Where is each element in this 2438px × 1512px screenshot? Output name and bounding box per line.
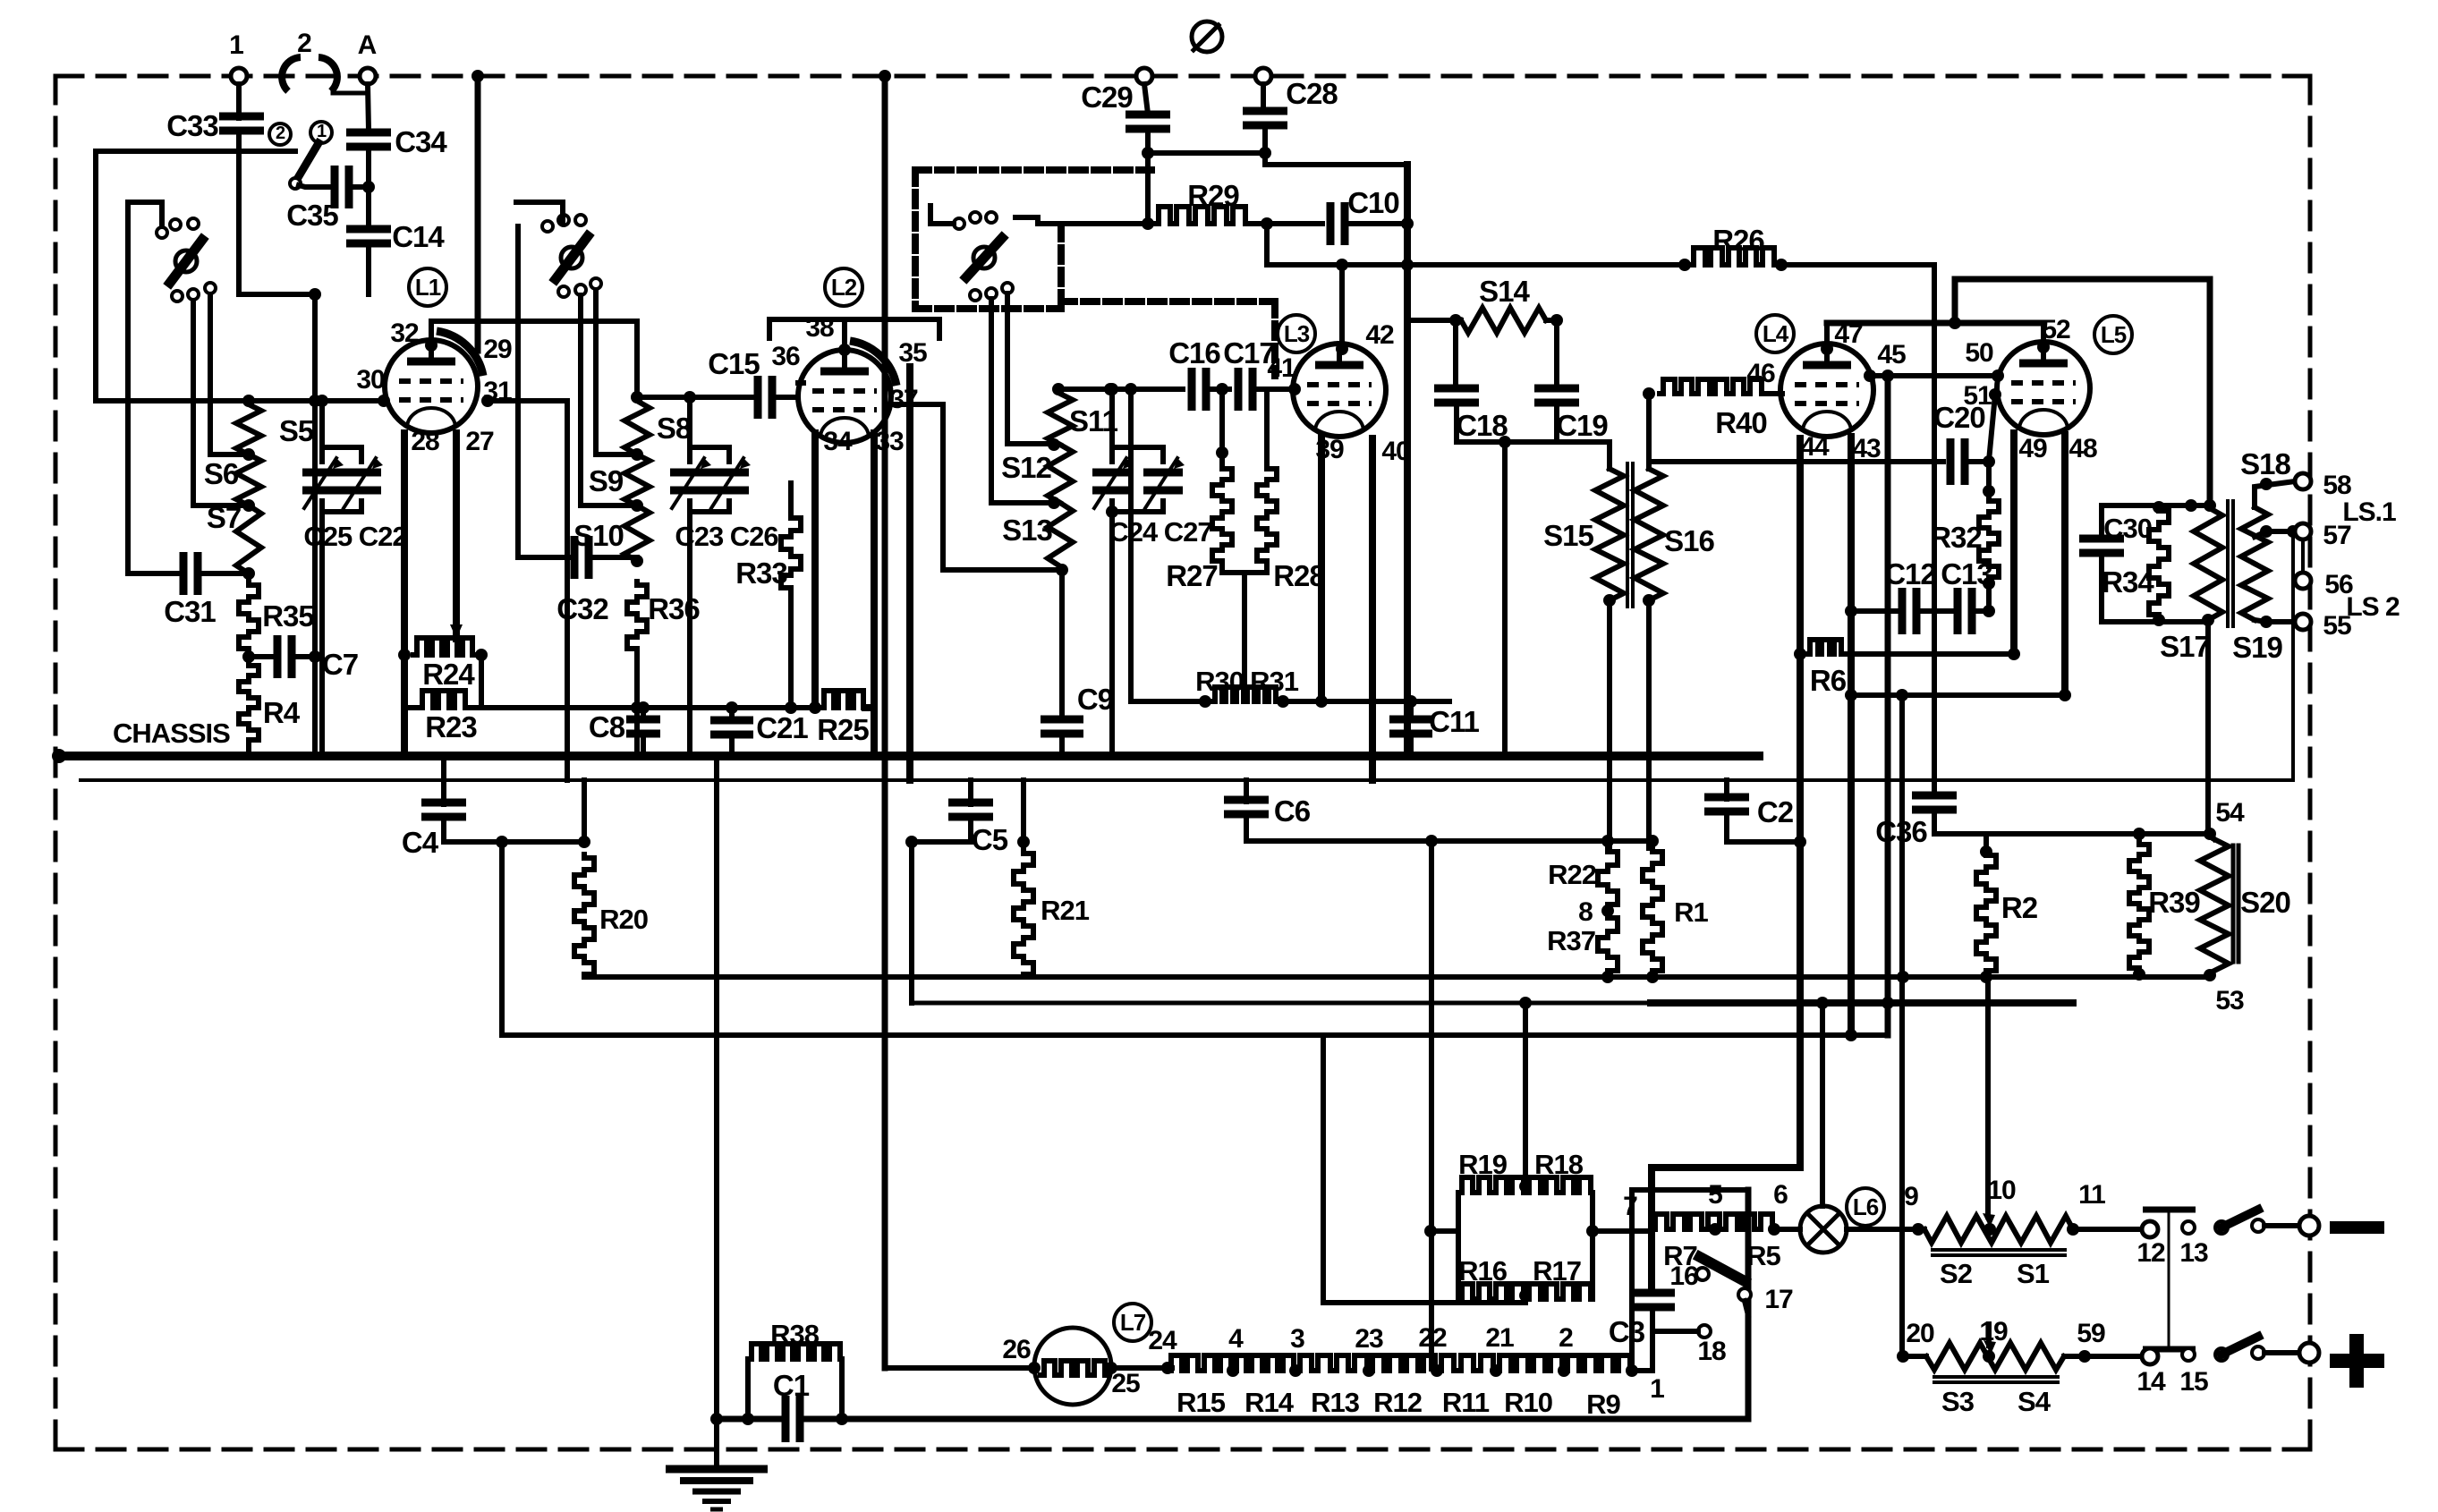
wire R27 R28 bracket <box>1222 564 1267 573</box>
svg-text:45: 45 <box>1877 340 1906 370</box>
wire switch2 left drop <box>515 226 521 557</box>
node R30 left <box>1199 695 1211 708</box>
wire screen bus y940 <box>1246 838 1652 844</box>
pot S2S1 base <box>1933 1248 2065 1252</box>
wire R36 to chassis <box>634 651 640 756</box>
node 3 <box>1289 1364 1302 1377</box>
node S5-S6 tap <box>242 448 255 461</box>
node below C35 <box>309 288 321 301</box>
wire B+ vertical <box>1404 165 1411 756</box>
node transformer top <box>2204 499 2216 512</box>
node C10 right <box>1401 217 1414 230</box>
svg-text:S4: S4 <box>2018 1386 2051 1417</box>
wire x1019 drop <box>909 842 914 1003</box>
svg-text:7: 7 <box>1623 1192 1637 1221</box>
wire R30 drop <box>1128 389 1134 701</box>
wire C6 bottom <box>1244 813 1249 841</box>
svg-text:15: 15 <box>2179 1367 2208 1397</box>
svg-text:R6: R6 <box>1810 664 1847 697</box>
terminal 57 <box>2295 523 2311 539</box>
svg-text:22: 22 <box>1418 1323 1447 1353</box>
variable capacitor C25 <box>302 469 342 477</box>
node C11 top <box>1405 695 1417 708</box>
wire HT vertical to L7 <box>882 76 888 1368</box>
oscillator switch contacts <box>954 218 964 229</box>
wire C30 bottom <box>2099 552 2104 622</box>
wire L3 anode riser <box>1339 265 1345 349</box>
node y940 R1 <box>1646 835 1659 847</box>
svg-text:30: 30 <box>356 365 385 395</box>
capacitor C34 <box>346 129 391 137</box>
wire R33 top stub <box>788 483 794 514</box>
node x2563 <box>2287 525 2299 538</box>
svg-text:R27: R27 <box>1166 559 1218 592</box>
node 6 <box>1768 1223 1780 1236</box>
aerial switch arm <box>299 143 319 176</box>
svg-text:C4: C4 <box>402 826 439 859</box>
node S11-S12 tap <box>1048 438 1060 451</box>
capacitor C6 <box>1224 796 1269 804</box>
node L7 right <box>1105 1362 1117 1374</box>
svg-text:C1: C1 <box>773 1369 810 1402</box>
svg-text:32: 32 <box>390 319 419 348</box>
node pin 41 <box>1288 383 1301 395</box>
svg-text:27: 27 <box>465 427 494 456</box>
wire tap S9/S10 link <box>581 295 637 505</box>
svg-text:29: 29 <box>483 335 512 364</box>
svg-text:C11: C11 <box>1429 705 1479 738</box>
wire S8 to C15 <box>637 395 759 400</box>
resistor R36 <box>627 582 647 651</box>
coil S7 <box>236 505 261 573</box>
wire R29 to C10 <box>1247 221 1322 226</box>
wire B+ to S14 <box>1407 318 1461 323</box>
node bridge top <box>1519 1180 1532 1193</box>
svg-text:R34: R34 <box>2102 565 2154 599</box>
switch position 1 circle <box>310 122 332 143</box>
wire C24-C27 bracket bottom <box>1112 501 1163 512</box>
wire bottom bus left <box>717 1416 782 1423</box>
svg-text:55: 55 <box>2323 611 2351 641</box>
capacitor C21 <box>710 717 753 725</box>
svg-text:R30: R30 <box>1195 666 1244 697</box>
svg-text:12: 12 <box>2136 1238 2165 1268</box>
wire pin 40 down <box>1369 438 1376 780</box>
node S4 <box>2204 828 2216 840</box>
node C24 bottom <box>1106 505 1118 518</box>
node R30 drop top <box>1125 383 1137 395</box>
node pin 38 <box>838 344 851 356</box>
wire C24 feed <box>1109 389 1115 462</box>
svg-text:C32: C32 <box>556 592 608 625</box>
capacitor C10 <box>1327 202 1335 245</box>
svg-text:R39: R39 <box>2148 886 2200 919</box>
capacitor C12 <box>1899 588 1907 634</box>
resistor R21 <box>1014 850 1033 977</box>
wire S14 right stub <box>1546 318 1557 323</box>
wire tap to 57 <box>2293 529 2295 534</box>
wire tank bottom <box>1457 402 1610 442</box>
wire tap S5/S6 <box>210 294 249 454</box>
minus symbol <box>2330 1221 2384 1234</box>
wire switch1 left drop <box>125 202 131 573</box>
node 2 <box>1558 1364 1570 1377</box>
node R38 left <box>742 1413 754 1425</box>
wire pin 34 down <box>811 433 819 708</box>
node pin 52 <box>2037 341 2050 353</box>
triode-hexode L1 <box>385 340 478 433</box>
node 4 <box>1227 1364 1239 1377</box>
svg-text:54: 54 <box>2215 798 2245 828</box>
terminal HT border 1 <box>1136 68 1152 84</box>
wire wiper 19 stub <box>1986 1324 1992 1346</box>
resistor R38 <box>748 1344 842 1359</box>
coil S11 <box>1048 394 1073 445</box>
capacitor C28 <box>1243 107 1287 115</box>
svg-text:S19: S19 <box>2232 631 2282 664</box>
resistor R20 <box>574 854 594 977</box>
wire C17 drop <box>1264 389 1270 465</box>
wire pot S3S4 out <box>2064 1354 2142 1359</box>
wire bus C y1157 <box>502 1032 1888 1038</box>
capacitor C20 <box>1947 438 1955 485</box>
capacitor C4 <box>421 799 466 807</box>
svg-text:44: 44 <box>1800 432 1830 462</box>
node S8-S9 tap <box>631 448 643 461</box>
resistor R26 <box>1690 248 1776 265</box>
wire x1479 riser <box>1321 1035 1326 1303</box>
node S18 tap <box>2185 499 2197 512</box>
svg-text:16: 16 <box>1669 1261 1698 1291</box>
capacitor C13 <box>1954 588 1962 634</box>
terminal 14 <box>2142 1348 2158 1364</box>
wire C10 right <box>1344 221 1407 226</box>
wire anode riser x2185 <box>1952 279 1958 323</box>
wire R33 bottom stub <box>788 590 794 708</box>
node R20 top <box>578 836 590 848</box>
capacitor C5 <box>948 799 993 807</box>
wire C5 hook <box>912 816 971 842</box>
svg-text:L7: L7 <box>1120 1309 1146 1336</box>
node pin 51 <box>1989 388 2001 401</box>
wire C29-C28 link <box>1148 150 1265 156</box>
node R38 right <box>836 1413 848 1425</box>
svg-text:5: 5 <box>1708 1180 1722 1210</box>
node 21 <box>1490 1364 1502 1377</box>
resistor R12 <box>1369 1355 1437 1371</box>
wire C25 feed <box>319 401 325 462</box>
wire switch2 feed <box>516 202 563 222</box>
resistor R39 <box>2129 841 2149 971</box>
node R2 bottom <box>1980 971 1992 983</box>
wire C29 to R29 <box>1145 128 1151 224</box>
node R6 right <box>2008 648 2020 660</box>
wire C31 right <box>197 571 249 576</box>
wire 20 stub <box>1903 1354 1926 1359</box>
resistor R1 <box>1643 848 1662 973</box>
switch 13 arm <box>2221 1210 2258 1227</box>
wire junction to x352 <box>239 292 315 297</box>
resistor R30 <box>1212 687 1244 701</box>
wire S17 to S4 <box>2205 620 2211 834</box>
wire osc switch feed <box>930 206 954 224</box>
capacitor C3 <box>1630 1289 1675 1297</box>
svg-text:R29: R29 <box>1187 179 1239 212</box>
node y940 x1600 <box>1425 835 1438 847</box>
node HT vertical top <box>879 70 891 82</box>
core S20 <box>2231 845 2236 962</box>
svg-text:2: 2 <box>297 29 311 58</box>
svg-text:R2: R2 <box>2001 891 2038 924</box>
shield box left dashed <box>912 170 919 309</box>
resistor R28 <box>1257 465 1277 564</box>
hum coil S20 <box>2200 839 2229 971</box>
node S11 top <box>1052 383 1065 395</box>
wire ground drop <box>714 756 719 1465</box>
node pin 32 <box>425 339 437 352</box>
svg-text:C19: C19 <box>1556 409 1608 442</box>
link bars <box>2143 1207 2196 1213</box>
node 9 <box>1912 1223 1924 1236</box>
switch 15 arm <box>2221 1337 2258 1355</box>
wire C32 right <box>588 555 637 560</box>
wire bridge feed <box>1523 1003 1528 1186</box>
svg-text:R12: R12 <box>1373 1387 1422 1418</box>
shield box top dashed <box>915 166 1151 174</box>
capacitor C31 <box>180 552 188 595</box>
wire bridge bottom drop <box>1323 1299 1525 1303</box>
wire R40 to L4 grid <box>1763 391 1782 396</box>
svg-text:10: 10 <box>1987 1176 2016 1205</box>
capacitor C29 <box>1126 111 1170 119</box>
switch 15 contacts <box>2182 1348 2195 1361</box>
resistor R25 <box>820 691 865 708</box>
wire C28 down <box>1262 124 1268 165</box>
svg-text:L6: L6 <box>1853 1193 1879 1220</box>
wire lamp feed <box>1820 1003 1825 1206</box>
svg-text:R11: R11 <box>1442 1387 1490 1418</box>
wire C14 down <box>366 242 371 294</box>
resistor R11 <box>1437 1355 1496 1371</box>
svg-text:C33: C33 <box>166 109 218 142</box>
wire C34 to C14 <box>366 146 371 230</box>
border top dashed <box>55 74 2310 79</box>
variable capacitor C26 <box>709 469 749 477</box>
wire bracket drop <box>1242 573 1247 701</box>
chassis bus <box>59 752 1759 760</box>
wire C5 top <box>968 780 973 804</box>
svg-text:C3: C3 <box>1609 1315 1645 1348</box>
svg-text:S12: S12 <box>1001 451 1051 484</box>
output pentode L5 <box>1997 342 2090 435</box>
tube label L1 <box>409 268 446 306</box>
resistor R32 <box>1979 497 1999 580</box>
svg-text:20: 20 <box>1906 1319 1934 1348</box>
node 8 <box>1601 905 1614 917</box>
wire C17 to L3 <box>1252 386 1293 392</box>
wire 57-56 jumper <box>2301 539 2305 573</box>
wire R32 to C13 <box>1986 580 1992 611</box>
resistor R10 <box>1496 1355 1564 1371</box>
svg-text:L5: L5 <box>2101 321 2127 348</box>
svg-text:25: 25 <box>1111 1369 1140 1398</box>
node C16 feed <box>1104 383 1117 395</box>
svg-text:R24: R24 <box>422 658 475 691</box>
node pin 47 <box>1821 343 1833 355</box>
resistor R22 <box>1598 848 1618 907</box>
svg-text:R35: R35 <box>262 599 314 633</box>
svg-text:R26: R26 <box>1712 224 1764 257</box>
node top border feed <box>471 70 484 82</box>
wire C12-C13 link <box>1916 608 1958 614</box>
wire C19 bottom <box>1554 402 1559 442</box>
wire C25-C22 bracket top <box>322 447 361 462</box>
wire C16-C17 link <box>1205 386 1229 392</box>
svg-text:C21: C21 <box>756 711 808 744</box>
node pin39 bottom <box>1315 695 1328 708</box>
node 22 <box>1431 1364 1443 1377</box>
node S18 tap dot <box>2260 478 2272 490</box>
svg-text:R9: R9 <box>1586 1389 1620 1420</box>
wire C8 top stub <box>641 708 646 719</box>
node L3 anode B+ <box>1336 259 1348 271</box>
svg-text:S10: S10 <box>573 519 624 552</box>
wire S13 to C9 <box>1059 570 1065 719</box>
svg-text:R38: R38 <box>770 1319 820 1350</box>
wire S16 bottom drop <box>1646 600 1652 848</box>
svg-text:S2: S2 <box>1940 1258 1972 1289</box>
power plug symbol <box>1192 21 1222 52</box>
node x2110 y420 <box>1882 370 1894 382</box>
svg-text:R23: R23 <box>425 710 477 743</box>
potentiometer S3 S4 <box>1926 1343 2064 1370</box>
wire bottom bus right <box>803 1416 1748 1423</box>
wire R38 left stub <box>745 1359 751 1419</box>
svg-text:59: 59 <box>2077 1319 2105 1348</box>
node S20 bottom <box>2204 969 2216 981</box>
switch 13 contacts <box>2182 1221 2195 1234</box>
svg-text:34: 34 <box>823 427 853 456</box>
resistor R2 <box>1976 852 1996 973</box>
node bridge left <box>1424 1225 1437 1237</box>
wire pin 38 stub <box>842 319 847 350</box>
wire thick to switch <box>1652 1168 1800 1291</box>
terminal plus <box>2299 1343 2319 1363</box>
wire chassis riser x2563 <box>2291 531 2295 780</box>
wire pin 31 out <box>488 401 567 780</box>
svg-text:R20: R20 <box>599 904 648 935</box>
svg-text:L4: L4 <box>1763 320 1789 347</box>
node C28 y171 <box>1259 147 1271 159</box>
svg-text:C35: C35 <box>286 199 338 232</box>
svg-text:42: 42 <box>1365 320 1394 350</box>
svg-text:C13: C13 <box>1941 557 1992 590</box>
coil S16 <box>1635 469 1663 600</box>
svg-text:R10: R10 <box>1504 1387 1552 1418</box>
wire pin 48 drop <box>2061 435 2068 695</box>
resistor R33 <box>781 514 801 590</box>
node B+ x1573 <box>1401 259 1414 271</box>
node S12-S13 tap <box>1048 497 1060 509</box>
svg-text:L2: L2 <box>831 274 857 301</box>
triode-hexode L2 <box>798 350 891 443</box>
resistor R15 <box>1168 1355 1233 1371</box>
capacitor C18 <box>1434 385 1479 393</box>
node C8 top <box>637 701 650 714</box>
svg-text:4: 4 <box>1228 1324 1244 1354</box>
svg-text:L1: L1 <box>415 274 441 301</box>
node S8 top <box>631 391 643 403</box>
node R21 top <box>1017 836 1030 848</box>
wire A hook <box>333 91 368 96</box>
node pin 45 <box>1864 370 1876 382</box>
capacitor C9 <box>1041 716 1083 724</box>
wire R21 riser <box>1021 780 1026 845</box>
node C2 hook <box>1794 836 1806 848</box>
node anode bus <box>1949 317 1961 329</box>
svg-text:R14: R14 <box>1244 1387 1295 1418</box>
svg-text:13: 13 <box>2179 1238 2208 1268</box>
svg-text:L3: L3 <box>1284 320 1310 347</box>
wire C30 bottom link <box>2102 619 2208 624</box>
wire bridge out to 7 <box>1593 1228 1652 1234</box>
wire tap S6/S7 <box>193 301 249 505</box>
node y1157 x2069 <box>1845 1029 1857 1041</box>
node bus x2127 <box>1897 971 1909 983</box>
node R1 bottom <box>1646 971 1659 983</box>
shield box right dashed <box>1058 225 1065 309</box>
svg-text:C14: C14 <box>392 220 445 253</box>
terminal 56 <box>2295 573 2311 589</box>
wire R25 right <box>865 708 874 756</box>
node C23 top <box>684 391 696 403</box>
node y777 x2126 <box>1896 689 1908 701</box>
node R34 top <box>2153 501 2165 514</box>
switch position 2 circle <box>269 123 291 145</box>
wire screen drop x2110 <box>1885 376 1891 1035</box>
node ground junction <box>710 1413 723 1425</box>
wire osc tap lower <box>991 299 1049 503</box>
wire C28 to C10 loop <box>1265 165 1407 224</box>
node R26 left <box>1678 259 1691 271</box>
svg-text:33: 33 <box>875 427 904 456</box>
tube label L7 <box>1114 1304 1151 1341</box>
svg-text:R28: R28 <box>1273 559 1325 592</box>
svg-text:40: 40 <box>1381 437 1410 466</box>
svg-text:S8: S8 <box>657 412 692 445</box>
node S6-S7 tap <box>242 499 255 512</box>
wire osc tap upper <box>1007 293 1049 444</box>
node C21 top <box>726 701 738 714</box>
terminal 2 contact arcs <box>282 57 301 91</box>
wire C12 line <box>1851 608 1903 614</box>
wire pin 27 down <box>453 433 460 639</box>
svg-text:41: 41 <box>1267 353 1295 383</box>
variable capacitor C24 <box>1092 469 1132 477</box>
shield box drop to L3 grid dashed <box>1271 302 1278 376</box>
shield box bottom extension dashed <box>1061 298 1275 305</box>
node S14 right <box>1550 314 1563 327</box>
node y1121 x2110 <box>1882 997 1894 1009</box>
node C29 y171 <box>1142 147 1154 159</box>
node 24 <box>1161 1362 1174 1374</box>
svg-text:C18: C18 <box>1456 409 1508 442</box>
svg-text:R31: R31 <box>1250 666 1299 697</box>
node C25 top <box>316 395 328 407</box>
svg-text:1: 1 <box>229 30 243 60</box>
primary coil S17 <box>2194 507 2222 620</box>
band switch 1 lower contacts <box>172 291 183 302</box>
